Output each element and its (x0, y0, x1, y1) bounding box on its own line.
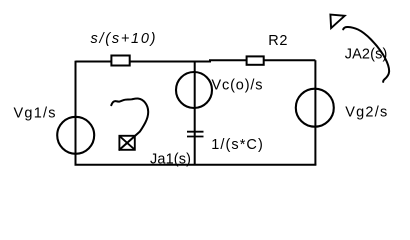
svg-text:1/(s*C): 1/(s*C) (211, 137, 262, 153)
svg-text:Ja1(s): Ja1(s) (150, 151, 191, 167)
svg-text:Vg1/s: Vg1/s (14, 106, 56, 122)
svg-text:Vg2/s: Vg2/s (345, 105, 387, 121)
svg-text:JA2(s): JA2(s) (345, 46, 388, 62)
svg-text:s/(s+10): s/(s+10) (91, 31, 156, 47)
svg-text:R2: R2 (268, 33, 287, 49)
svg-text:Vc(o)/s: Vc(o)/s (212, 78, 263, 94)
